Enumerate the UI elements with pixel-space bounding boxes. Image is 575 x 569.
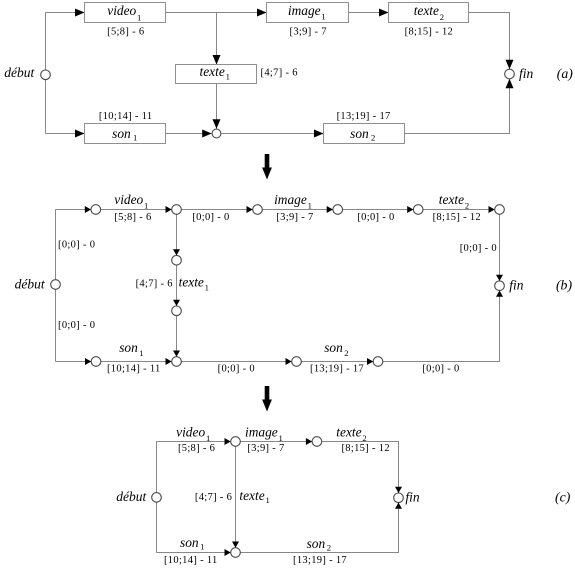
svg-text:[5;8] - 6: [5;8] - 6 — [178, 443, 215, 454]
svg-text:[8;15] - 12: [8;15] - 12 — [405, 27, 453, 38]
svg-text:[4;7] - 6: [4;7] - 6 — [136, 279, 173, 290]
svg-text:[5;8] - 6: [5;8] - 6 — [107, 27, 144, 38]
svg-text:(b): (b) — [556, 278, 572, 294]
svg-text:[10;14] - 11: [10;14] - 11 — [99, 111, 153, 122]
svg-text:[4;7] - 6: [4;7] - 6 — [261, 67, 298, 78]
svg-text:[10;14] - 11: [10;14] - 11 — [164, 555, 218, 566]
svg-text:[3;9] - 7: [3;9] - 7 — [247, 443, 284, 454]
svg-text:début: début — [116, 489, 147, 504]
svg-text:[0;0] - 0: [0;0] - 0 — [422, 363, 459, 374]
svg-text:[13;19] - 17: [13;19] - 17 — [337, 111, 391, 122]
svg-text:(c): (c) — [555, 490, 571, 506]
svg-text:[0;0] - 0: [0;0] - 0 — [58, 320, 95, 331]
svg-text:[4;7] - 6: [4;7] - 6 — [195, 492, 232, 503]
svg-text:fin: fin — [509, 278, 524, 293]
svg-text:[10;14] - 11: [10;14] - 11 — [107, 363, 161, 374]
svg-text:[5;8] - 6: [5;8] - 6 — [114, 212, 151, 223]
svg-text:[0;0] - 0: [0;0] - 0 — [460, 243, 497, 254]
svg-text:[3;9] - 7: [3;9] - 7 — [290, 27, 327, 38]
svg-text:fin: fin — [519, 66, 534, 81]
svg-text:début: début — [15, 276, 46, 291]
svg-text:(a): (a) — [557, 66, 573, 82]
svg-text:[13;19] - 17: [13;19] - 17 — [293, 555, 347, 566]
svg-text:fin: fin — [405, 489, 420, 504]
svg-text:début: début — [4, 65, 35, 80]
svg-text:[0;0] - 0: [0;0] - 0 — [192, 212, 229, 223]
svg-text:[0;0] - 0: [0;0] - 0 — [218, 363, 255, 374]
svg-text:[13;19] - 17: [13;19] - 17 — [310, 363, 364, 374]
svg-text:[3;9] - 7: [3;9] - 7 — [276, 212, 313, 223]
svg-text:[0;0] - 0: [0;0] - 0 — [58, 240, 95, 251]
svg-text:[8;15] - 12: [8;15] - 12 — [433, 212, 481, 223]
svg-text:[0;0] - 0: [0;0] - 0 — [357, 212, 394, 223]
svg-text:[8;15] - 12: [8;15] - 12 — [341, 443, 389, 454]
